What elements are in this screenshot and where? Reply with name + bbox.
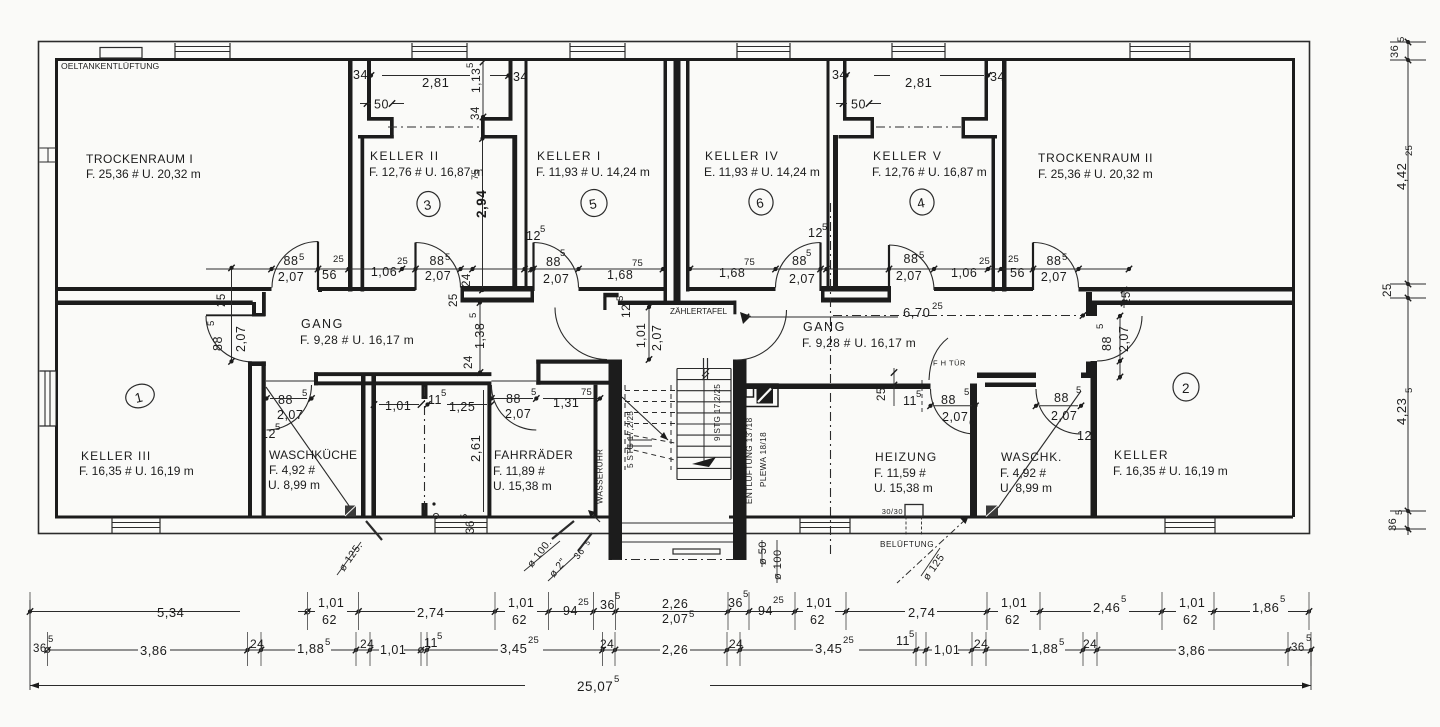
top exterior wall inner line	[56, 58, 1293, 61]
stair hall east wall	[733, 301, 747, 518]
dim 88/2,07 Keller III door	[206, 265, 248, 365]
dim row B 36/5 right	[1291, 633, 1311, 654]
svg-text:KELLER IV: KELLER IV	[705, 149, 779, 163]
svg-text:HEIZUNG: HEIZUNG	[875, 450, 937, 464]
svg-text:1,68: 1,68	[719, 266, 745, 280]
svg-text:25,07: 25,07	[577, 679, 613, 694]
svg-text:5: 5	[325, 637, 330, 648]
svg-text:E. 11,93 # U. 14,24 m: E. 11,93 # U. 14,24 m	[704, 165, 820, 179]
circled 5	[578, 187, 609, 219]
svg-text:F. 9,28 # U. 16,17 m: F. 9,28 # U. 16,17 m	[802, 336, 916, 350]
dimension row C total line	[30, 600, 1311, 690]
Heizung east wall	[970, 384, 977, 518]
dim row B 24 d	[729, 637, 743, 651]
dim row A 1,01/62 e	[1176, 596, 1208, 627]
svg-text:24: 24	[250, 637, 264, 651]
svg-text:F. 16,35 # U. 16,19 m: F. 16,35 # U. 16,19 m	[79, 464, 194, 478]
dim row B 24 c	[600, 637, 614, 651]
dim right 36/5 bottom	[1387, 510, 1405, 531]
dim 6,70/25 Gang	[743, 301, 1086, 320]
svg-text:2,07: 2,07	[942, 410, 968, 424]
svg-text:36: 36	[33, 643, 47, 655]
dim row A 1,01/62 a	[315, 596, 347, 627]
svg-text:KELLER III: KELLER III	[81, 449, 151, 463]
room label Keller V	[872, 149, 987, 179]
svg-text:WASCHKÜCHE: WASCHKÜCHE	[269, 448, 357, 462]
dim row A 1,01/62 d	[998, 596, 1030, 627]
svg-text:94: 94	[563, 604, 578, 618]
dim 50 Keller II niche	[360, 98, 404, 112]
svg-text:2,07: 2,07	[650, 325, 664, 351]
svg-text:88: 88	[430, 254, 445, 268]
svg-text:25: 25	[1382, 283, 1394, 297]
door arc Keller V	[889, 245, 934, 291]
svg-text:50: 50	[851, 98, 866, 112]
dim 1,06 right	[951, 256, 990, 280]
door arc Keller I	[534, 243, 579, 292]
dim 88/2,07 Waschk door	[1033, 385, 1084, 423]
room label Heizung	[874, 450, 937, 495]
svg-text:25: 25	[216, 293, 228, 307]
svg-text:75: 75	[581, 387, 592, 398]
svg-text:5: 5	[1404, 388, 1415, 393]
dim row B 3,86 a	[138, 642, 170, 658]
svg-text:2,07: 2,07	[234, 326, 248, 352]
dim row A 2,74 b	[905, 603, 937, 620]
svg-text:5: 5	[206, 321, 217, 326]
window top wall 5	[892, 43, 945, 58]
svg-text:88: 88	[211, 336, 225, 351]
dim 24 left	[461, 273, 473, 287]
dim 50 Keller V niche	[836, 98, 881, 112]
svg-text:88: 88	[278, 393, 293, 407]
svg-text:11: 11	[896, 634, 910, 648]
svg-text:1,01: 1,01	[318, 596, 344, 610]
dim row B 1,88/5 a	[295, 637, 331, 656]
svg-text:12: 12	[261, 427, 276, 441]
svg-text:5: 5	[531, 387, 536, 398]
svg-text:U. 8,99 m: U. 8,99 m	[268, 478, 320, 492]
dim 88/2,07 Keller IV door	[789, 248, 815, 286]
svg-text:ø 50: ø 50	[757, 541, 769, 565]
Keller II niche walls	[358, 58, 516, 139]
svg-text:25: 25	[1404, 145, 1415, 156]
svg-text:/18: /18	[745, 417, 754, 430]
svg-text:25: 25	[578, 597, 589, 608]
drain labels left group	[524, 521, 592, 581]
dim 2,61 compartment depth	[468, 390, 484, 512]
svg-text:2,74: 2,74	[908, 605, 935, 620]
wall Keller V / Trockenraum II	[1002, 58, 1007, 292]
svg-text:36: 36	[1387, 518, 1399, 531]
svg-text:4,42: 4,42	[1394, 163, 1409, 190]
svg-text:1,01: 1,01	[806, 596, 832, 610]
dim 88/2,07 Trockenraum I door	[278, 252, 305, 284]
svg-text:GANG: GANG	[803, 320, 846, 334]
svg-text:1,68: 1,68	[607, 268, 633, 282]
svg-text:5: 5	[299, 252, 304, 263]
svg-text:BELÜFTUNG: BELÜFTUNG	[880, 539, 934, 549]
svg-text:75: 75	[632, 258, 643, 269]
svg-text:2,07: 2,07	[425, 269, 451, 283]
svg-text:25: 25	[932, 301, 943, 312]
svg-text:88: 88	[1054, 391, 1069, 405]
dim 25 Keller2 wall	[1121, 287, 1133, 308]
dim row A 2,26 / 2,07/5	[662, 597, 694, 626]
svg-text:5: 5	[615, 591, 620, 602]
svg-text:2,61: 2,61	[468, 435, 483, 462]
dim 34 labels Keller V	[832, 68, 1005, 84]
svg-text:88: 88	[941, 393, 956, 407]
svg-text:25: 25	[333, 254, 344, 265]
svg-text:36: 36	[600, 598, 615, 612]
dim 12/5 Waschk	[1077, 424, 1096, 443]
svg-text:2,07: 2,07	[896, 269, 922, 283]
corridor west wall upper	[252, 292, 266, 317]
dim row B 1,01 b	[932, 642, 960, 657]
svg-text:5: 5	[916, 389, 921, 400]
dim 1,25 compartment	[447, 400, 495, 414]
wall Trockenraum I / Keller II	[348, 58, 353, 292]
svg-text:1,06: 1,06	[951, 266, 977, 280]
svg-text:75: 75	[744, 257, 755, 268]
door arc Waschkueche	[267, 385, 312, 430]
svg-text:56: 56	[1010, 266, 1025, 280]
Keller II left wall	[361, 135, 365, 292]
stair left flight (5 STG)	[622, 385, 675, 470]
svg-text:25: 25	[1008, 254, 1019, 265]
svg-text:88: 88	[284, 254, 299, 268]
window bottom wall 4	[1165, 518, 1215, 534]
svg-text:5: 5	[468, 313, 479, 318]
svg-text:F H TÜR: F H TÜR	[933, 359, 966, 368]
dim 1,31/75 Fahrraeder	[543, 387, 603, 410]
circled 4	[908, 187, 937, 217]
svg-text:25: 25	[528, 635, 539, 646]
svg-text:1,01: 1,01	[1001, 596, 1027, 610]
room label Waschkueche	[268, 448, 357, 492]
Keller V right wall	[992, 135, 996, 292]
dim row A 5,34	[157, 604, 298, 620]
drain label o125 left	[337, 521, 382, 575]
svg-text:GANG: GANG	[301, 317, 344, 331]
svg-text:11: 11	[424, 636, 438, 650]
Keller2 top wall	[1097, 301, 1293, 306]
svg-text:3,86: 3,86	[140, 643, 167, 658]
svg-text:TROCKENRAUM I: TROCKENRAUM I	[86, 152, 193, 166]
dim 1,01 2,07 stair door	[634, 304, 664, 363]
dim row A 2,74 a	[415, 603, 445, 620]
svg-text:KELLER I: KELLER I	[537, 149, 602, 163]
svg-text:24: 24	[463, 355, 475, 369]
left exterior wall inner line	[55, 58, 58, 517]
svg-text:6: 6	[969, 417, 976, 429]
drain label o125 right	[897, 517, 969, 584]
dimension row A line	[27, 592, 1312, 630]
dim 2,81 Keller V niche	[843, 72, 991, 90]
svg-text:25: 25	[773, 595, 784, 606]
svg-text:1,01: 1,01	[934, 643, 960, 657]
dim 34 labels Keller II	[353, 68, 528, 84]
Fahrraeder left wall	[487, 385, 491, 516]
door arc Gang west	[555, 308, 607, 360]
corridor west wall lower	[248, 361, 266, 517]
compartment left wall	[361, 376, 376, 516]
label Belueftung	[880, 539, 934, 549]
svg-text:5: 5	[1095, 324, 1106, 329]
room label Fahrraeder	[493, 448, 573, 493]
dim 1,38/5 corridor width	[468, 299, 487, 375]
Zaehlertafel niche wall	[618, 292, 736, 306]
svg-text:FAHRRÄDER: FAHRRÄDER	[494, 448, 573, 462]
dim row B 3,45/25 a	[498, 635, 543, 656]
vent line dash-dot vertical	[830, 203, 832, 556]
svg-text:F. 12,76 # U. 16,87 m: F. 12,76 # U. 16,87 m	[369, 165, 484, 179]
dim 25 vert corridor	[448, 293, 460, 307]
label Oeltankentlueftung	[61, 61, 160, 71]
dim 88/2,07 Keller V door	[896, 250, 925, 283]
dim row B 2,26	[660, 642, 690, 657]
svg-text:F. 4,92 #: F. 4,92 #	[1000, 466, 1046, 480]
svg-text:2,81: 2,81	[905, 75, 932, 90]
Keller2 west wall	[1091, 301, 1098, 518]
svg-text:F. 11,93 # U. 14,24 m: F. 11,93 # U. 14,24 m	[536, 165, 650, 179]
Heizung 30/30 box	[882, 505, 923, 537]
svg-text:PLEWA 18/18: PLEWA 18/18	[759, 432, 768, 487]
dim row A 1,86/5	[1250, 594, 1288, 615]
svg-text:ZÄHLERTAFEL: ZÄHLERTAFEL	[670, 306, 727, 316]
door arc Gang east	[737, 310, 787, 360]
svg-text:88: 88	[546, 255, 561, 269]
svg-text:5: 5	[1396, 37, 1407, 42]
dim 1,06 left	[371, 256, 408, 279]
svg-text:25: 25	[397, 256, 408, 267]
dim 1,68/75 Keller IV	[719, 257, 755, 280]
svg-text:5: 5	[445, 252, 450, 263]
door arc Keller IV	[776, 243, 821, 292]
dim 2,81 Keller II niche	[368, 72, 512, 90]
room label Gang right	[802, 320, 916, 350]
window top wall 2	[412, 43, 467, 58]
Trockenraum I door east jamb pier	[318, 288, 322, 292]
svg-text:5: 5	[459, 514, 470, 519]
svg-text:2: 2	[1182, 381, 1190, 396]
porch dash-dot line	[612, 559, 738, 561]
svg-text:1,01: 1,01	[508, 596, 534, 610]
dim 1,13/5 vertical	[465, 59, 486, 120]
svg-text:WASCHK.: WASCHK.	[1001, 450, 1062, 464]
svg-text:2,07: 2,07	[543, 272, 569, 286]
dim 12/5 niche	[615, 296, 633, 318]
Waschk floor drain	[986, 506, 998, 517]
svg-text:U. 15,38 m: U. 15,38 m	[874, 481, 933, 495]
svg-text:36: 36	[465, 520, 477, 534]
svg-text:5: 5	[540, 224, 545, 235]
svg-text:2,07: 2,07	[789, 272, 815, 286]
dim 88/2,07 Waschkueche door	[263, 388, 314, 422]
svg-text:34: 34	[470, 106, 482, 120]
dimension row B line	[44, 632, 1314, 666]
door arc Trockenraum I	[272, 242, 318, 291]
Keller V niche walls	[839, 58, 998, 139]
Waschk top wall	[977, 373, 1036, 388]
svg-text:12: 12	[619, 304, 633, 318]
svg-text:25: 25	[876, 387, 888, 401]
Keller IV left wall	[686, 58, 690, 292]
svg-text:62: 62	[810, 613, 825, 627]
svg-text:34: 34	[832, 68, 847, 82]
dim row B 24 f	[1083, 637, 1097, 651]
room label Keller I	[536, 149, 650, 179]
window top wall 6	[1130, 43, 1190, 58]
svg-text:1,01: 1,01	[634, 323, 648, 348]
svg-text:56: 56	[322, 268, 337, 282]
svg-text:2,07: 2,07	[277, 408, 303, 422]
Waschkueche floor drain	[345, 506, 356, 517]
dim row B 1,88/5 b	[1029, 637, 1065, 656]
label Plewa	[759, 432, 768, 487]
label FH Tuer	[929, 338, 966, 380]
dim 11/5 Heizung wall	[903, 380, 922, 412]
svg-text:U. 15,38 m: U. 15,38 m	[493, 479, 552, 493]
svg-text:5: 5	[437, 631, 442, 642]
window bottom wall 1	[112, 518, 160, 534]
svg-text:1,31: 1,31	[553, 396, 579, 410]
svg-text:50: 50	[374, 98, 389, 112]
entrance porch walls	[609, 517, 747, 560]
stair hall west wall	[603, 293, 622, 517]
dim right 25	[1382, 283, 1394, 297]
dim right 4,42/25	[1394, 145, 1415, 190]
svg-text:24: 24	[600, 637, 614, 651]
vent line dash-dot horizontal	[833, 315, 1085, 317]
svg-text:F. 12,76 # U. 16,87 m: F. 12,76 # U. 16,87 m	[872, 165, 987, 179]
svg-text:12: 12	[526, 229, 541, 243]
dim 24 corridor wall	[463, 355, 475, 369]
stair handrail stub	[702, 358, 709, 380]
svg-text:36: 36	[1389, 45, 1401, 58]
svg-text:ENTLÜFTUNG 13: ENTLÜFTUNG 13	[744, 432, 754, 504]
stair label 9 STG	[713, 384, 722, 441]
svg-text:24: 24	[974, 637, 988, 651]
dim 36/5 compartment window	[459, 514, 477, 534]
Wasseruhr shaft arrow	[588, 510, 600, 522]
svg-text:62: 62	[1183, 613, 1198, 627]
dim row B 11/5 a	[424, 631, 442, 650]
svg-text:1,01: 1,01	[385, 399, 411, 413]
svg-text:88: 88	[1100, 336, 1114, 351]
dim 25 Keller III pier	[216, 293, 228, 307]
room label Trockenraum I	[86, 152, 201, 181]
svg-text:3,86: 3,86	[1178, 643, 1205, 658]
svg-text:5: 5	[465, 63, 476, 68]
svg-text:F. 25,36 # U. 20,32 m: F. 25,36 # U. 20,32 m	[1038, 167, 1153, 181]
stair label 5 STG	[626, 411, 635, 468]
Keller IV right wall	[827, 58, 839, 292]
svg-text:2,07: 2,07	[278, 270, 304, 284]
door arc Waschk	[1036, 389, 1081, 434]
dim row A 1,01/62 b	[505, 596, 537, 627]
svg-text:36: 36	[1291, 642, 1305, 654]
svg-text:WASSERUHR: WASSERUHR	[596, 449, 605, 504]
Keller I right wall	[664, 58, 668, 292]
svg-text:1,88: 1,88	[297, 641, 324, 656]
dim row A 36/5 a	[600, 591, 620, 612]
svg-text:5 STG 17,2/25: 5 STG 17,2/25	[626, 411, 635, 468]
dim 1,01 compartment	[371, 399, 424, 413]
svg-text:88: 88	[1047, 254, 1062, 268]
Trockenraum II bottom wall	[1079, 287, 1294, 292]
svg-text:2,94: 2,94	[474, 190, 489, 218]
svg-text:5: 5	[909, 629, 914, 640]
dim 88/2,07 Keller I door	[543, 248, 569, 286]
compartment partition stubs	[422, 385, 439, 519]
room label Keller II	[369, 149, 484, 179]
svg-text:3,45: 3,45	[815, 641, 842, 656]
Waschkueche door diagonal	[266, 387, 352, 510]
svg-text:KELLER V: KELLER V	[873, 149, 942, 163]
dim 12/5 Waschkueche	[261, 422, 280, 441]
svg-text:F. 25,36 # U. 20,32 m: F. 25,36 # U. 20,32 m	[86, 167, 201, 181]
window bottom wall 3	[800, 518, 850, 534]
dim row A 2,46/5	[1091, 594, 1129, 615]
left Gang south wall	[266, 360, 609, 386]
dim row B 24 e	[974, 637, 988, 651]
dim 25 Heizung	[876, 368, 897, 406]
door arc Trockenraum II	[1033, 242, 1079, 290]
door arc Keller2	[1097, 316, 1142, 361]
svg-text:2,26: 2,26	[662, 597, 688, 611]
dim 88/2,07 Keller II door	[425, 252, 451, 283]
svg-text:2,07: 2,07	[1117, 326, 1131, 352]
svg-text:1,13: 1,13	[469, 68, 483, 93]
dim row B 36/5 left	[33, 634, 53, 655]
svg-text:5: 5	[822, 222, 827, 233]
circled 6	[747, 187, 776, 217]
circled 1	[123, 381, 158, 412]
right dimension column line	[1390, 39, 1426, 535]
svg-text:5: 5	[614, 674, 619, 685]
svg-text:2,07: 2,07	[1041, 270, 1067, 284]
svg-text:2,46: 2,46	[1093, 600, 1120, 615]
room label Trockenraum II	[1038, 151, 1153, 181]
svg-text:F. 4,92 #: F. 4,92 #	[269, 463, 315, 477]
label Entlueftung	[742, 417, 754, 504]
window bottom wall 2	[435, 518, 487, 534]
dim row B 24 a	[250, 637, 264, 651]
svg-text:11: 11	[903, 394, 917, 408]
svg-text:2,07: 2,07	[662, 612, 688, 626]
dim row A 1,01/62 c	[803, 596, 835, 627]
svg-text:94: 94	[758, 604, 773, 618]
Keller V niche dash-dot line	[876, 126, 961, 128]
Waschk door diagonal	[998, 391, 1081, 508]
dim 12/5 Keller IV jamb	[808, 222, 827, 240]
dim 25/56 left	[322, 254, 344, 282]
dim 34 vertical small	[470, 106, 482, 120]
party wall	[674, 58, 681, 301]
door arc Keller III	[206, 315, 252, 362]
svg-text:5: 5	[919, 250, 924, 261]
door arc Heizung	[931, 389, 976, 434]
svg-text:5: 5	[1062, 252, 1067, 263]
pier block right (under Keller IV/V shaft)	[821, 286, 891, 303]
svg-text:88: 88	[904, 252, 919, 266]
Keller I left wall	[525, 58, 528, 292]
room label Gang left	[300, 317, 414, 347]
room label Keller2	[1113, 448, 1228, 478]
svg-text:KELLER: KELLER	[1114, 448, 1169, 462]
